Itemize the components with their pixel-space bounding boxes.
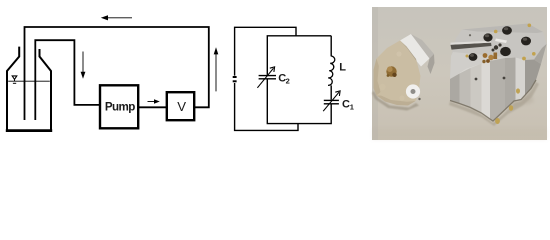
photograph background [372, 7, 547, 140]
pump box [100, 85, 138, 128]
svg-text:V: V [177, 99, 186, 114]
tank / reservoir bottle [6, 47, 52, 131]
photo: wedge far end cap [411, 34, 434, 59]
arrow: right flow pump to valve [148, 99, 160, 104]
water level symbol [12, 76, 17, 83]
photo: brass cluster on block [482, 53, 497, 64]
photo: shadow under block [449, 82, 539, 126]
photo: dark pepper cluster [492, 43, 502, 51]
photo: block top face [450, 24, 547, 80]
photo: gold screws on block top [466, 24, 536, 61]
photo: block bottom contact line [450, 80, 536, 121]
svg-text:L: L [339, 61, 346, 73]
photo: bright spots on wedge face [396, 51, 401, 56]
svg-text:1: 1 [350, 102, 354, 111]
photo: wedge face shading [374, 59, 381, 96]
capacitor C2 (variable) [257, 67, 276, 88]
photo: brass fitting on wedge [386, 66, 396, 77]
photo: block front facet strips [450, 74, 460, 104]
photo: white washer on wedge [406, 84, 420, 98]
photo: wedge main tan face [374, 41, 421, 106]
inner loop wire [267, 36, 331, 124]
valve box V [167, 92, 194, 120]
photo: wedge silver hypotenuse band [400, 34, 430, 67]
photo: shadow under wedge [372, 91, 419, 111]
arrow: up flow right riser [214, 47, 219, 91]
wire: return tube into bottle, top line, right riser down to valve [25, 27, 209, 120]
arrow: down flow [81, 52, 86, 79]
outer resonant loop wire [235, 27, 298, 130]
photo: small dark hole on wedge [418, 98, 420, 100]
svg-text:Pump: Pump [105, 100, 135, 113]
label C2 [278, 72, 290, 85]
water level line [8, 80, 50, 82]
wire: outlet tube from bottle to pump inlet [35, 40, 99, 120]
photo: wedge cap sliver [428, 54, 435, 74]
photo: bright connector sliver [495, 39, 507, 44]
photo: black knobs on block top [469, 26, 531, 61]
photo: small screws on block front [475, 77, 506, 81]
arrow: top flow left [101, 15, 132, 20]
svg-text:2: 2 [286, 76, 290, 85]
small capacitor on outer loop [233, 77, 237, 81]
wire: pump to valve [139, 106, 168, 108]
photo: dark slot on block top [451, 43, 492, 50]
label C1 [342, 98, 354, 111]
inductor L [328, 56, 335, 85]
capacitor C1 (variable) [323, 91, 340, 111]
photo: brass feet under block [495, 88, 520, 124]
